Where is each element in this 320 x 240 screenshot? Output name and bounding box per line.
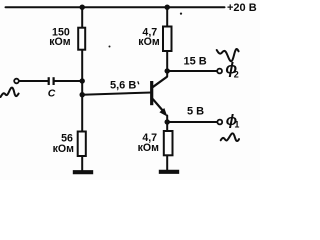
wire capacitor input segment — [19, 80, 48, 82]
output terminal phi1 circle — [217, 120, 222, 125]
svg-text:кОм: кОм — [49, 36, 71, 48]
output waveform squiggle phi2 — [217, 49, 239, 61]
transistor Q1 base bar — [150, 81, 153, 105]
label phi2 — [225, 61, 238, 80]
wire +20V supply rail — [6, 6, 225, 8]
label R3 value 4,7 кОм — [138, 26, 160, 48]
label phi1 — [226, 112, 240, 129]
label base voltage 5,6 В — [110, 79, 139, 91]
node collector output junction — [165, 68, 170, 73]
label R2 value 56 кОм — [53, 132, 75, 155]
ground (left, under R2) — [73, 170, 93, 174]
wire collector output to phi2 terminal — [167, 70, 217, 72]
wire left branch vertical (R1/R2 string) — [81, 7, 83, 170]
label emitter voltage 5 В — [187, 106, 204, 118]
svg-text:кОм: кОм — [138, 142, 160, 154]
speckle artifacts — [109, 13, 183, 48]
resistor R4 4,7 кОм (emitter) — [164, 131, 173, 155]
svg-text:кОм: кОм — [138, 36, 160, 48]
node rail-left junction — [80, 5, 85, 10]
node rail-right junction — [165, 5, 170, 10]
svg-text:C: C — [48, 88, 56, 100]
input signal squiggle — [1, 88, 19, 97]
wire base lead — [82, 93, 151, 95]
resistor R3 4,7 кОм (collector) — [163, 27, 172, 52]
transistor Q1 emitter stroke with arrow — [153, 99, 168, 117]
resistor R1 150 кОм — [78, 28, 85, 50]
transistor Q1 collector stroke — [153, 77, 168, 88]
node emitter output junction — [165, 119, 170, 124]
svg-text:5 В: 5 В — [187, 106, 204, 118]
node B (junction: divider / base) — [80, 92, 85, 97]
wire emitter output to phi1 terminal — [167, 121, 217, 123]
wire right branch vertical bottom (emitter string) — [166, 116, 168, 171]
svg-text:2: 2 — [234, 70, 239, 80]
node A (junction: capacitor / divider) — [80, 78, 85, 83]
output terminal phi2 circle — [217, 69, 222, 74]
svg-text:5,6 В: 5,6 В — [110, 79, 136, 91]
output waveform squiggle phi1 — [221, 133, 239, 141]
wire right branch vertical top (collector string) — [166, 7, 168, 76]
label R1 value 150 кОм — [49, 27, 71, 49]
svg-text:1: 1 — [234, 119, 239, 129]
label supply +20 В — [227, 2, 257, 14]
svg-text:кОм: кОм — [53, 143, 75, 155]
wire capacitor to node A — [55, 80, 83, 82]
capacitor C plates — [49, 77, 54, 85]
resistor R2 56 кОм — [78, 132, 86, 157]
svg-text:+20 В: +20 В — [227, 2, 257, 14]
label R4 value 4,7 кОм — [138, 132, 160, 154]
label capacitor C — [48, 88, 56, 100]
ground (right, under R4) — [159, 170, 179, 174]
label collector voltage 15 В — [184, 55, 207, 67]
input terminal circle — [14, 79, 19, 84]
svg-text:15 В: 15 В — [184, 55, 207, 67]
